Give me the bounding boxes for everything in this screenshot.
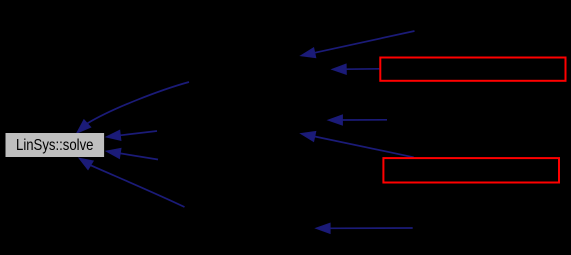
node: truncated caller box 1 (red border) xyxy=(380,58,565,81)
arrowhead on top edge of LinSys::solve box xyxy=(77,120,91,134)
arrowhead lower on right edge of LinSys::solve box xyxy=(106,148,121,158)
arrowhead on bottom edge of LinSys::solve box xyxy=(79,158,94,170)
wire: bottom horizontal edge shaft xyxy=(330,227,413,229)
arrowhead of edge from red box 2 xyxy=(300,131,316,141)
wire: lower straight edge into LinSys::solve box xyxy=(120,153,158,159)
node LinSys::solve (current node, grey) xyxy=(6,133,105,157)
wire: edge from red box 1 to middle node, shaft xyxy=(346,68,379,70)
wire: edge from node at (414,31) to middle node, shaft xyxy=(315,31,415,53)
arrowhead of bottom horizontal edge xyxy=(316,223,331,233)
wire: edge mid-right horizontal shaft xyxy=(343,119,388,121)
wire: upper straight edge into LinSys::solve box xyxy=(120,131,157,135)
arrowhead of edge from red box 1 xyxy=(332,64,347,74)
wire: edge from red box 2 top edge to middle node, shaft xyxy=(315,137,414,158)
arrowhead of mid horizontal edge xyxy=(328,115,343,125)
node: truncated caller box 2 (red border) xyxy=(383,158,559,182)
wire: bottom curve into LinSys::solve box xyxy=(91,165,185,207)
wire: top curve into LinSys::solve box xyxy=(87,82,189,123)
arrowhead of top-right edge xyxy=(300,48,316,58)
arrowhead upper on right edge of LinSys::solve box xyxy=(106,130,121,140)
svg-text:LinSys::solve: LinSys::solve xyxy=(16,137,94,154)
